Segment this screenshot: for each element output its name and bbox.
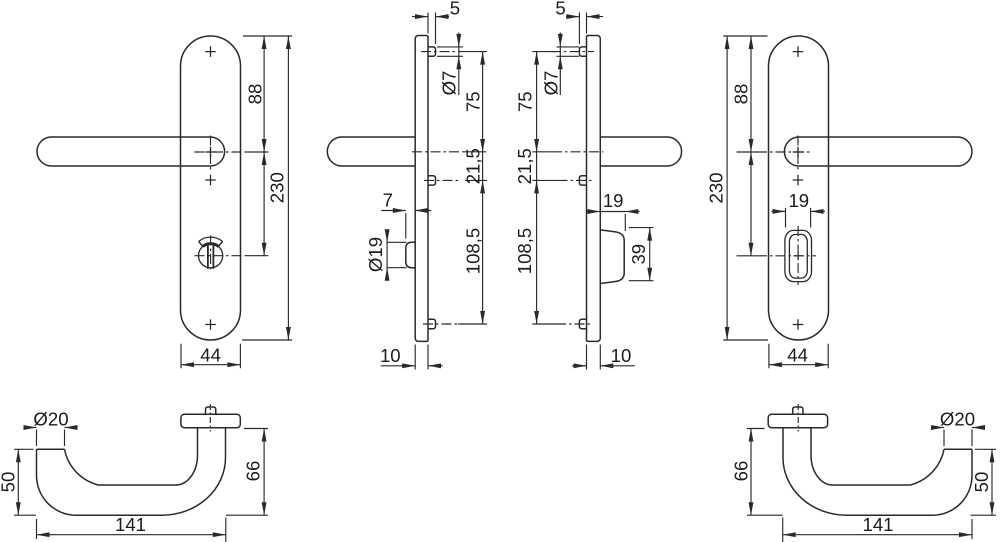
right top screw side <box>579 47 586 56</box>
dimension 75 left <box>463 51 487 53</box>
svg-text:19: 19 <box>788 190 809 211</box>
right backplate front view <box>769 36 829 340</box>
dimension 141 right <box>971 519 973 539</box>
svg-text:230: 230 <box>267 172 288 203</box>
dimension 5 left <box>427 13 429 34</box>
oval turn outer <box>785 230 812 281</box>
dimension diameter 20 left <box>36 430 38 447</box>
svg-text:44: 44 <box>200 345 221 366</box>
right plate top screw cross <box>793 46 804 57</box>
dimension 39 knob right <box>629 227 654 229</box>
left plate top screw cross <box>205 46 216 57</box>
right plate lower fixing cross <box>793 175 804 186</box>
svg-text:108,5: 108,5 <box>514 228 535 275</box>
dimension 108,5 right <box>532 323 556 325</box>
left handle centre cross <box>205 147 216 158</box>
dimension diameter 7 left <box>437 46 463 48</box>
right grip inner contour <box>811 428 944 485</box>
WC turn vertical centre line <box>210 236 212 273</box>
oval turn horizontal centre line <box>737 255 758 257</box>
dimension 75 right <box>532 51 556 53</box>
right lever handle front view <box>784 137 972 166</box>
left plate lower fixing cross <box>205 175 216 186</box>
left top screw side <box>428 47 436 56</box>
WC turn bar lines <box>207 242 209 268</box>
left plate side profile <box>415 36 428 342</box>
svg-text:Ø7: Ø7 <box>439 71 460 96</box>
right handle horizontal centre line <box>737 151 758 153</box>
dimension 10 left <box>414 345 416 370</box>
right top screw centre line <box>551 51 594 53</box>
left mid screw side <box>428 176 436 185</box>
svg-text:10: 10 <box>611 345 632 366</box>
left backplate front view <box>181 36 241 340</box>
WC turn thick top arc <box>203 244 219 247</box>
dimension 50 left <box>14 448 34 450</box>
left handle horizontal centre line <box>195 151 247 153</box>
left grip inner contour <box>65 428 198 485</box>
left mid screw centre line <box>424 179 458 181</box>
left handle rose <box>181 414 240 428</box>
svg-text:21,5: 21,5 <box>514 148 535 184</box>
dimension 5 right <box>578 13 580 45</box>
right grip side view <box>600 137 681 166</box>
dimension 50 right <box>975 448 996 450</box>
svg-text:88: 88 <box>730 84 751 105</box>
dimension 108,5 left <box>458 323 487 325</box>
left grip outer contour <box>37 428 226 516</box>
dimension diameter 7 right <box>557 46 580 48</box>
right grip outer contour <box>783 428 972 516</box>
svg-text:75: 75 <box>462 91 483 112</box>
svg-text:Ø20: Ø20 <box>33 409 68 430</box>
dimension 21,5 left <box>465 179 487 181</box>
right grip centre line <box>532 151 552 153</box>
dimension 21,5 right <box>532 179 557 181</box>
svg-text:108,5: 108,5 <box>462 228 483 275</box>
left spindle hub side <box>406 242 415 267</box>
left spindle centre line <box>209 404 211 432</box>
right bottom screw side <box>579 319 586 328</box>
extension line plate top right <box>723 35 767 37</box>
right handle spindle stub <box>793 407 803 414</box>
svg-text:141: 141 <box>862 514 893 535</box>
dimension 10 right <box>586 345 588 370</box>
WC turn horizontal centre line <box>195 255 247 257</box>
dimension 141 left <box>36 519 38 539</box>
svg-text:44: 44 <box>787 345 808 366</box>
dimension 230 left <box>287 36 289 340</box>
WC turn circle <box>199 244 223 268</box>
left plate bottom screw cross <box>205 319 216 330</box>
extension line plate bottom right <box>723 339 768 341</box>
right handle rose <box>768 414 827 428</box>
svg-text:7: 7 <box>383 190 393 211</box>
extension line plate bottom left <box>242 339 292 341</box>
svg-text:39: 39 <box>628 244 649 265</box>
right spindle centre line <box>797 404 799 432</box>
oval turn vertical centre line <box>797 226 799 285</box>
right handle centre cross <box>793 147 804 158</box>
dimension 44 left <box>180 344 182 369</box>
dimension 7 hub left <box>405 213 407 239</box>
dimension 66 right <box>747 428 765 430</box>
svg-text:66: 66 <box>730 461 751 482</box>
left grip side view <box>327 137 415 166</box>
svg-text:75: 75 <box>515 91 536 112</box>
WC turn grip end connectors <box>199 241 203 246</box>
svg-text:Ø20: Ø20 <box>940 409 975 430</box>
left handle vertical centre line <box>210 136 212 173</box>
dimension 88 left <box>263 36 265 152</box>
svg-text:10: 10 <box>380 345 401 366</box>
WC turn grip outer arc <box>199 237 223 241</box>
svg-text:88: 88 <box>244 84 265 105</box>
right plate side profile <box>587 36 601 342</box>
svg-text:230: 230 <box>705 172 726 203</box>
right plate bottom screw cross <box>793 319 804 330</box>
left grip centre line <box>412 151 462 153</box>
svg-text:50: 50 <box>0 472 18 493</box>
svg-text:66: 66 <box>242 461 263 482</box>
dimension 88 right <box>750 36 752 152</box>
right bottom screw centre line <box>556 323 592 325</box>
left bottom screw centre line <box>423 323 458 325</box>
extension line plate top left <box>243 35 292 37</box>
oval turn centre cross <box>794 251 803 260</box>
svg-text:5: 5 <box>450 0 460 18</box>
dimension diameter 20 right <box>943 430 945 447</box>
dimension handle-to-turn left <box>263 152 265 256</box>
dimension 66 left <box>244 428 268 430</box>
right mid screw side <box>579 176 586 185</box>
svg-text:Ø7: Ø7 <box>540 71 561 96</box>
right grip top edge <box>944 448 972 450</box>
dimension 230 right <box>726 36 728 340</box>
right mid screw centre line <box>558 179 592 181</box>
oval turn inner <box>789 235 807 279</box>
left handle spindle stub <box>206 407 216 414</box>
dimension handle-to-turn right <box>750 152 752 256</box>
svg-text:Ø19: Ø19 <box>365 237 386 272</box>
left bottom screw side <box>428 319 436 328</box>
WC knob side view <box>600 230 624 284</box>
left lever handle front view <box>37 137 225 166</box>
left top screw centre line <box>421 51 463 53</box>
left grip top edge <box>37 448 65 450</box>
svg-text:21,5: 21,5 <box>462 148 483 184</box>
dimension 19 right plate <box>785 208 787 228</box>
dimension 19 knob right <box>624 214 626 231</box>
right handle vertical centre line <box>797 136 799 173</box>
svg-text:5: 5 <box>555 0 565 18</box>
svg-text:50: 50 <box>971 472 992 493</box>
svg-text:19: 19 <box>603 190 624 211</box>
dimension diameter 19 left <box>387 241 406 243</box>
dimension 44 right <box>768 344 770 369</box>
svg-text:141: 141 <box>115 514 146 535</box>
